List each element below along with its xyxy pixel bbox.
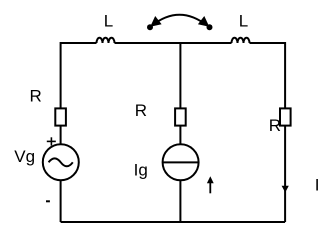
wire top rail right segment — [250, 43, 286, 108]
wire top rail left segment — [61, 43, 97, 108]
wire middle resistor to source — [179, 126, 181, 145]
svg-text:R: R — [30, 87, 42, 106]
svg-text:Vg: Vg — [14, 147, 35, 166]
resistor R1 (left) — [55, 108, 66, 125]
minus sign of Vg — [46, 200, 50, 202]
coupling dot right — [207, 24, 213, 30]
resistor R3 (right) — [280, 108, 291, 125]
wire middle source to bottom — [179, 180, 181, 222]
wire top rail middle segment — [115, 42, 232, 44]
svg-text:R: R — [269, 116, 281, 135]
wire left rail resistor to source — [60, 126, 62, 145]
svg-text:I: I — [315, 176, 320, 195]
wire bottom rail — [61, 221, 286, 223]
voltage source Vg — [43, 144, 79, 180]
inductor L2 — [232, 38, 250, 43]
resistor R2 (middle) — [175, 108, 186, 125]
svg-text:L: L — [104, 11, 113, 30]
coupling dot left — [147, 24, 153, 30]
wire middle branch top — [179, 43, 181, 108]
mutual coupling arc M — [152, 15, 207, 26]
plus sign of Vg — [47, 137, 56, 145]
wire right rail resistor to bottom — [284, 126, 286, 222]
svg-text:Ig: Ig — [134, 160, 148, 179]
branch current arrowhead I (down) — [282, 186, 289, 193]
svg-text:R: R — [135, 101, 147, 120]
current arrow Ig direction (up) — [207, 176, 214, 193]
coupling arrowhead left — [150, 16, 161, 27]
svg-text:L: L — [239, 11, 248, 30]
coupling arrowhead right — [198, 16, 209, 27]
inductor L1 — [97, 38, 115, 43]
wire left rail source to bottom — [60, 180, 62, 222]
current source Ig — [163, 144, 199, 180]
